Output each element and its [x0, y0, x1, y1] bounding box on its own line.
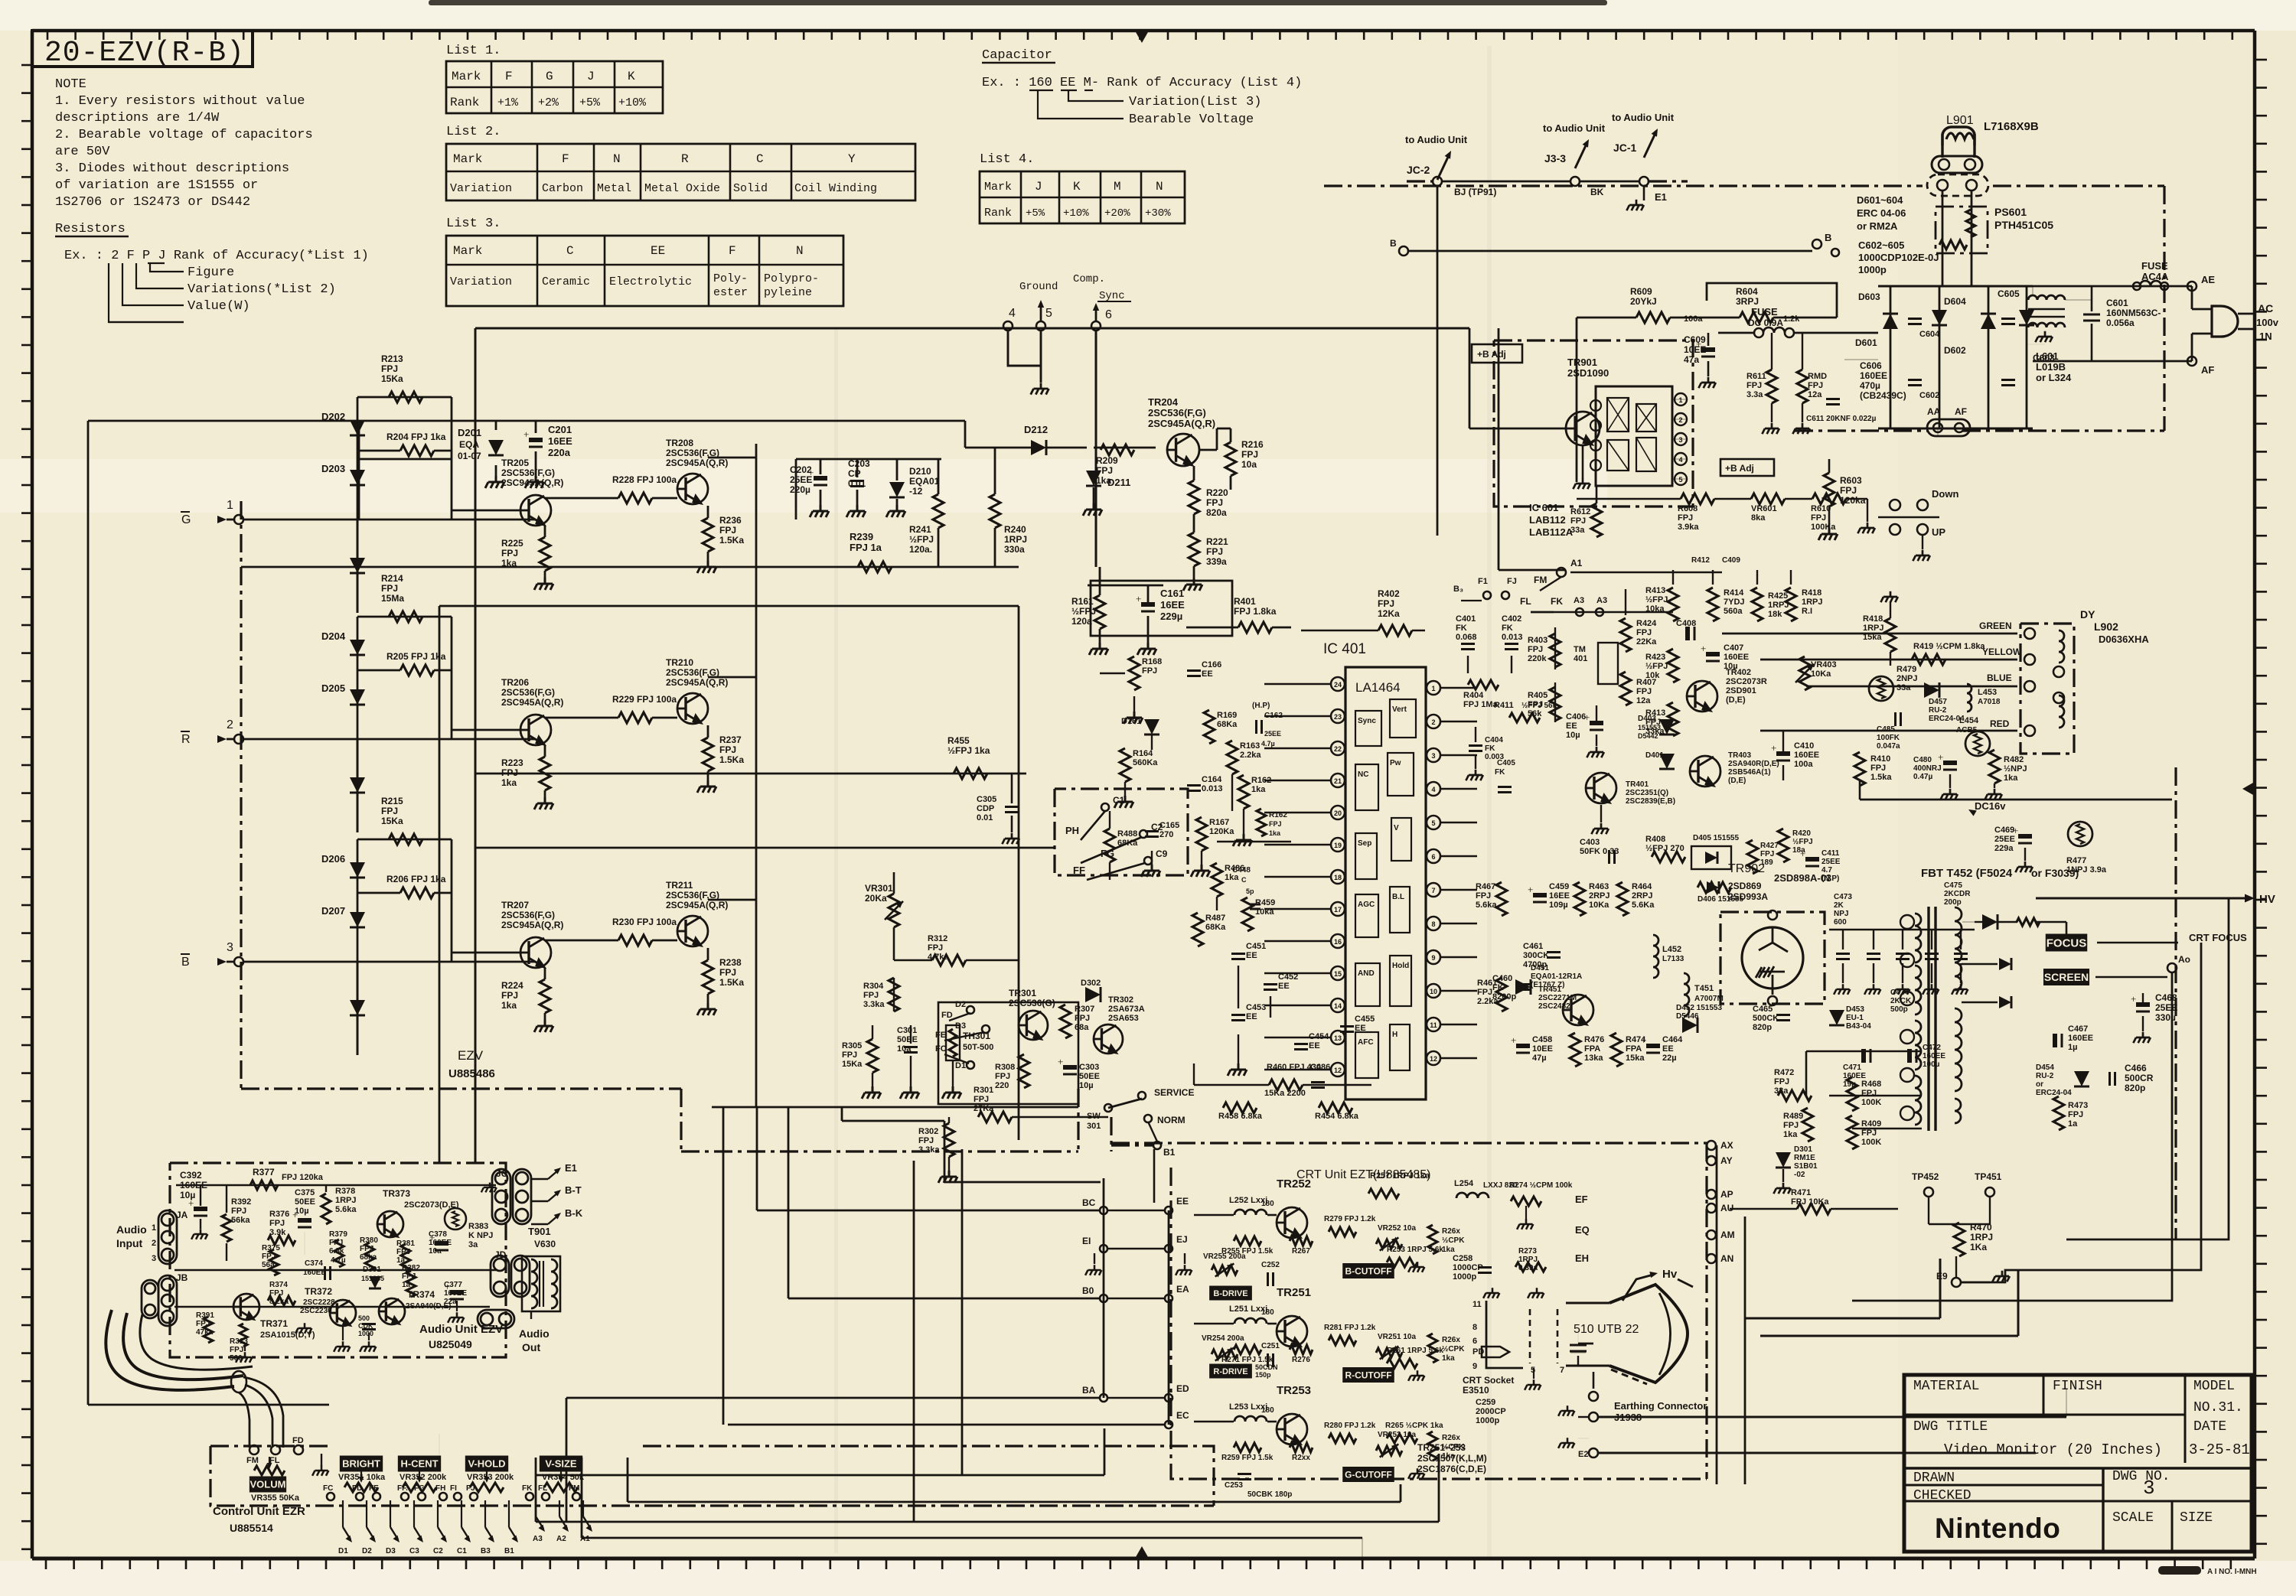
svg-text:R223: R223 — [501, 757, 523, 768]
svg-text:Metal: Metal — [597, 182, 631, 195]
svg-text:C: C — [1241, 876, 1247, 884]
ruler ticks bottom — [45, 1559, 47, 1569]
wires to AE AF — [2033, 285, 2192, 288]
resistor R221 — [1189, 533, 1199, 566]
svg-text:C377: C377 — [444, 1281, 462, 1289]
svg-text:0.013: 0.013 — [1502, 633, 1523, 642]
FOCUS SCREEN boxes — [2046, 934, 2088, 952]
svg-text:ester: ester — [713, 286, 748, 299]
svg-text:CDP: CDP — [977, 804, 994, 813]
EZV unit boundary dash-dot — [240, 501, 242, 1089]
svg-text:List 1.: List 1. — [446, 44, 501, 58]
svg-text:V630: V630 — [534, 1239, 556, 1249]
svg-text:15: 15 — [1334, 970, 1342, 978]
VOLUM pot — [249, 1477, 286, 1493]
vertical from JC-2 — [1437, 186, 1439, 329]
svg-text:2.2ka: 2.2ka — [1477, 997, 1499, 1006]
svg-text:FH: FH — [435, 1484, 445, 1493]
svg-text:D602: D602 — [1944, 345, 1966, 356]
svg-text:B: B — [1390, 238, 1397, 249]
svg-text:1: 1 — [1431, 685, 1435, 692]
svg-text:R419 ½CPM 1.8ka: R419 ½CPM 1.8ka — [1913, 642, 1985, 651]
crt aquadag cap — [1578, 1343, 1593, 1345]
svg-text:160NM563C-: 160NM563C- — [2106, 308, 2161, 318]
svg-text:TR374: TR374 — [407, 1289, 435, 1300]
svg-text:FUSE: FUSE — [2141, 260, 2168, 272]
svg-text:C392: C392 — [180, 1170, 202, 1181]
svg-text:C2: C2 — [433, 1547, 443, 1555]
svg-text:13ka: 13ka — [1584, 1054, 1603, 1063]
svg-text:Value(W): Value(W) — [188, 299, 250, 314]
svg-text:2SD993A: 2SD993A — [1728, 891, 1768, 902]
svg-text:Pw: Pw — [1390, 759, 1401, 767]
svg-text:1: 1 — [1678, 396, 1682, 404]
diode D206 — [357, 839, 359, 962]
svg-text:5: 5 — [1678, 476, 1682, 484]
part R488 — [1104, 829, 1115, 862]
svg-text:G: G — [181, 513, 191, 526]
svg-text:2SC1507(K,L,M): 2SC1507(K,L,M) — [1417, 1453, 1487, 1464]
svg-text:FPJ: FPJ — [381, 363, 398, 374]
svg-text:D5446: D5446 — [1676, 1012, 1699, 1021]
svg-text:G: G — [546, 70, 553, 83]
svg-text:10EE: 10EE — [1532, 1044, 1553, 1054]
svg-text:10k: 10k — [1645, 671, 1660, 680]
svg-text:R612: R612 — [1570, 507, 1590, 516]
svg-text:N: N — [613, 152, 621, 166]
part R487 — [1192, 913, 1203, 946]
svg-text:½FPJ: ½FPJ — [1792, 838, 1813, 846]
resistor R376 — [268, 1236, 295, 1245]
svg-text:FPJ: FPJ — [360, 1245, 373, 1253]
R404 — [1468, 680, 1499, 689]
svg-text:D603: D603 — [1858, 292, 1880, 302]
top edge scan smudge — [429, 0, 1607, 5]
svg-text:PD: PD — [1473, 1347, 1484, 1357]
svg-text:IC 601: IC 601 — [1529, 502, 1558, 513]
svg-text:15ka: 15ka — [1626, 1054, 1645, 1063]
svg-text:C201: C201 — [548, 424, 572, 435]
svg-text:C202: C202 — [790, 464, 812, 475]
svg-text:FUSE: FUSE — [1751, 306, 1778, 318]
svg-text:C374: C374 — [305, 1259, 323, 1268]
svg-text:+5%: +5% — [579, 96, 601, 109]
R609 R604 resistors — [1636, 312, 1670, 323]
capacitor C454 — [1294, 1043, 1308, 1045]
svg-text:M: M — [1114, 180, 1121, 194]
svg-text:D403: D403 — [1638, 715, 1656, 723]
pot arrows — [360, 1471, 362, 1481]
svg-text:330a: 330a — [1004, 544, 1025, 555]
diode D212 — [1031, 440, 1046, 455]
svg-text:JB: JB — [176, 1272, 188, 1283]
svg-text:YELLOW: YELLOW — [1982, 647, 2022, 657]
ruler ticks right — [2255, 59, 2267, 61]
svg-text:R253 1RPJ 5.6k: R253 1RPJ 5.6k — [1387, 1246, 1443, 1254]
svg-text:47ka: 47ka — [196, 1328, 214, 1337]
svg-text:R279 FPJ 1.2k: R279 FPJ 1.2k — [1324, 1215, 1376, 1223]
svg-text:R459: R459 — [1255, 898, 1275, 907]
svg-text:to Audio Unit: to Audio Unit — [1405, 134, 1468, 145]
svg-text:FPJ: FPJ — [1774, 1077, 1789, 1086]
resistor R381 — [401, 1244, 410, 1272]
resistor R2xx — [1290, 1443, 1313, 1452]
svg-text:FI: FI — [450, 1484, 457, 1493]
svg-text:FPJ: FPJ — [231, 1207, 246, 1216]
svg-text:22: 22 — [1334, 745, 1342, 753]
verticals to bottom rails — [913, 1161, 915, 1522]
resistor legend bracket lines — [150, 263, 184, 272]
diode D202 — [357, 397, 359, 520]
resistor R280 — [1329, 1434, 1356, 1443]
svg-text:+10%: +10% — [1063, 207, 1089, 220]
svg-text:56a: 56a — [262, 1261, 275, 1269]
svg-text:LA1464: LA1464 — [1355, 680, 1401, 695]
svg-text:R455: R455 — [947, 735, 970, 746]
svg-text:AY: AY — [1720, 1155, 1733, 1166]
svg-text:14: 14 — [1334, 1002, 1342, 1010]
svg-text:H: H — [1392, 1031, 1397, 1039]
svg-text:DC 0.9A: DC 0.9A — [1748, 318, 1783, 328]
svg-text:VR352 200k: VR352 200k — [400, 1473, 447, 1482]
R408 D405 R427 cluster — [1652, 852, 1685, 862]
svg-text:3: 3 — [1678, 436, 1682, 444]
svg-text:R301: R301 — [974, 1086, 993, 1095]
svg-text:pyleine: pyleine — [764, 286, 812, 299]
svg-text:FPJ: FPJ — [1096, 465, 1113, 476]
svg-text:AC: AC — [2258, 302, 2273, 314]
svg-text:R418: R418 — [1802, 588, 1821, 598]
svg-text:L454: L454 — [1959, 716, 1979, 725]
AC plug — [2212, 306, 2238, 337]
svg-text:TR211: TR211 — [666, 880, 693, 891]
svg-text:FPJ 120ka: FPJ 120ka — [282, 1173, 324, 1182]
svg-text:A1: A1 — [1570, 558, 1583, 568]
print code bottom right — [2158, 1566, 2201, 1575]
svg-text:Earthing Connector: Earthing Connector — [1614, 1400, 1707, 1412]
svg-text:3.9ka: 3.9ka — [1678, 523, 1699, 532]
svg-text:Variation: Variation — [450, 275, 512, 288]
svg-text:50T-500: 50T-500 — [963, 1043, 993, 1052]
wires from audio to control — [439, 1434, 440, 1458]
crt node labels — [1165, 1207, 1172, 1214]
svg-text:C606: C606 — [1860, 360, 1882, 371]
svg-text:9: 9 — [1473, 1362, 1477, 1371]
capacitor C451 — [1231, 953, 1245, 955]
svg-text:R423: R423 — [1645, 653, 1665, 662]
svg-text:ED: ED — [1176, 1383, 1189, 1394]
svg-text:C474: C474 — [1890, 989, 1909, 997]
svg-text:N: N — [796, 244, 804, 258]
resistor R240 — [990, 494, 1000, 528]
svg-text:C409: C409 — [1722, 556, 1740, 565]
svg-text:R402: R402 — [1378, 588, 1400, 599]
svg-text:C258: C258 — [1453, 1254, 1473, 1263]
svg-text:VR254 200a: VR254 200a — [1202, 1334, 1244, 1343]
capacitor C374 — [324, 1266, 326, 1280]
bottom long wires — [536, 1521, 1439, 1523]
svg-text:4: 4 — [1009, 307, 1016, 320]
degauss coil L901 — [1946, 133, 1974, 139]
E1 BT BK arrows — [531, 1178, 548, 1180]
svg-text:R162: R162 — [1269, 811, 1287, 819]
svg-text:C475: C475 — [1944, 881, 1962, 890]
svg-text:D457: D457 — [1929, 698, 1947, 706]
svg-text:EE: EE — [1202, 669, 1213, 679]
svg-text:DWG TITLE: DWG TITLE — [1913, 1419, 1988, 1435]
svg-text:R240: R240 — [1004, 524, 1026, 535]
svg-text:C251: C251 — [1261, 1342, 1280, 1350]
svg-text:2.2ka: 2.2ka — [1240, 751, 1261, 760]
capacitor C253 — [1238, 1473, 1251, 1475]
svg-text:C486: C486 — [1310, 1063, 1330, 1072]
svg-text:R609: R609 — [1630, 286, 1652, 297]
svg-text:FE: FE — [935, 1031, 946, 1040]
svg-text:20: 20 — [1334, 809, 1342, 817]
PS601 posistor — [1936, 207, 1988, 253]
part C164 — [1187, 784, 1201, 787]
svg-text:TR371: TR371 — [260, 1318, 288, 1329]
svg-text:B: B — [1825, 232, 1831, 243]
svg-text:R487: R487 — [1205, 914, 1225, 923]
svg-text:510 UTB 22: 510 UTB 22 — [1574, 1323, 1639, 1336]
svg-text:160EE: 160EE — [429, 1239, 452, 1247]
svg-text:R.I: R.I — [1802, 607, 1812, 616]
svg-text:1ka: 1ka — [501, 1000, 517, 1011]
svg-text:R608: R608 — [1678, 504, 1698, 513]
svg-text:C609: C609 — [1684, 334, 1706, 345]
svg-text:+B Adj: +B Adj — [1477, 349, 1506, 360]
C609 cap — [1701, 347, 1715, 352]
svg-text:0.068: 0.068 — [1456, 633, 1477, 642]
svg-text:VR601: VR601 — [1751, 504, 1777, 513]
SW301 service-norm switch — [1104, 1104, 1112, 1112]
svg-text:4: 4 — [1431, 786, 1435, 793]
R603 fpj — [1824, 473, 1835, 506]
svg-text:FPJ: FPJ — [719, 967, 736, 978]
svg-text:33a: 33a — [1896, 683, 1911, 692]
svg-text:Y: Y — [848, 152, 856, 166]
svg-text:10EE: 10EE — [1684, 344, 1706, 355]
svg-text:C602: C602 — [1919, 391, 1939, 400]
svg-text:FPJ: FPJ — [501, 548, 518, 559]
svg-text:2SC2351(Q): 2SC2351(Q) — [1626, 789, 1668, 797]
svg-text:12: 12 — [1334, 1067, 1342, 1074]
svg-text:FPJ: FPJ — [1811, 513, 1826, 523]
svg-text:E9: E9 — [1936, 1271, 1948, 1282]
resistor R214 — [357, 616, 452, 618]
svg-text:2: 2 — [1678, 416, 1682, 424]
svg-text:B-DRIVE: B-DRIVE — [1213, 1289, 1247, 1298]
svg-text:1Ka: 1Ka — [1970, 1242, 1987, 1252]
svg-text:R391: R391 — [196, 1311, 214, 1320]
svg-text:(E1767 Z): (E1767 Z) — [1531, 981, 1564, 989]
svg-text:R168: R168 — [1142, 657, 1162, 666]
svg-text:15Ka: 15Ka — [842, 1060, 863, 1069]
svg-text:50CBK 180p: 50CBK 180p — [1247, 1490, 1292, 1499]
svg-text:UP: UP — [1932, 526, 1945, 538]
svg-text:300CK: 300CK — [1523, 951, 1549, 960]
svg-text:TR372: TR372 — [305, 1286, 332, 1297]
FM FL FD pins — [249, 1445, 259, 1454]
svg-text:Ex. : 160 EE M- Rank of Accura: Ex. : 160 EE M- Rank of Accuracy (List 4… — [982, 76, 1302, 90]
svg-text:2RPJ: 2RPJ — [1589, 891, 1610, 901]
drawing title block — [1904, 1375, 2252, 1552]
svg-text:JC-1: JC-1 — [1613, 142, 1637, 154]
svg-text:FPJ: FPJ — [1528, 700, 1543, 709]
svg-text:R476: R476 — [1584, 1035, 1604, 1044]
svg-text:1ka: 1ka — [1096, 475, 1111, 486]
svg-text:TR204: TR204 — [1148, 396, 1179, 408]
svg-text:47a: 47a — [1684, 354, 1699, 365]
extra right bottom wires — [1760, 1335, 2018, 1337]
svg-text:C259: C259 — [1476, 1398, 1495, 1407]
B node tap — [1812, 239, 1821, 249]
svg-text:SIZE: SIZE — [2180, 1510, 2213, 1526]
svg-text:2KCDR: 2KCDR — [1944, 890, 1971, 898]
svg-text:Sync: Sync — [1358, 717, 1376, 725]
svg-text:C164: C164 — [1202, 775, 1222, 784]
TR901 shield box — [1494, 340, 1693, 506]
crt socket — [1486, 1301, 1523, 1368]
Ao node — [2167, 963, 2177, 972]
svg-text:12: 12 — [1430, 1055, 1437, 1063]
svg-text:FPJ: FPJ — [269, 1289, 283, 1298]
svg-text:Ao: Ao — [2178, 954, 2190, 965]
svg-text:List 2.: List 2. — [446, 125, 501, 139]
svg-text:3: 3 — [227, 941, 233, 954]
svg-text:D452 151553: D452 151553 — [1676, 1004, 1722, 1012]
svg-text:DWG NO.: DWG NO. — [2112, 1469, 2170, 1484]
svg-text:6: 6 — [1431, 853, 1435, 861]
svg-text:10µ: 10µ — [1566, 731, 1580, 740]
svg-text:1.5Ka: 1.5Ka — [719, 535, 744, 546]
svg-text:3a: 3a — [468, 1240, 478, 1249]
row resistor right — [1428, 1334, 1437, 1363]
svg-text:2SC536(F,G): 2SC536(F,G) — [501, 910, 555, 920]
svg-text:C448: C448 — [1232, 866, 1251, 875]
VR VR253 — [1376, 1446, 1402, 1455]
AE AF nodes — [2187, 282, 2197, 291]
svg-text:C466: C466 — [2125, 1063, 2147, 1073]
svg-text:1ka: 1ka — [1442, 1246, 1455, 1254]
row connectors — [1108, 1210, 1164, 1212]
svg-text:AF: AF — [2201, 364, 2214, 376]
svg-text:150p: 150p — [1255, 1371, 1271, 1379]
svg-text:1ka: 1ka — [1442, 1354, 1455, 1363]
AA AF connector bottom — [1927, 419, 1970, 436]
part R164 — [1120, 748, 1130, 782]
svg-text:100Ka: 100Ka — [1811, 523, 1836, 532]
svg-text:A3: A3 — [1574, 596, 1584, 605]
svg-text:19: 19 — [1334, 842, 1342, 849]
svg-text:K: K — [1073, 180, 1081, 194]
svg-text:400NRJ: 400NRJ — [1913, 764, 1942, 773]
svg-text:AFC: AFC — [1358, 1038, 1374, 1047]
transistor TR211 — [677, 916, 708, 946]
svg-text:160EE: 160EE — [1923, 1052, 1945, 1060]
svg-text:R169: R169 — [1217, 711, 1237, 720]
audio cable tube — [106, 1310, 234, 1390]
resistor R220 — [1189, 480, 1199, 514]
R612 R617 — [1591, 503, 1602, 537]
transistor TR374 — [379, 1298, 405, 1324]
svg-text:151335: 151335 — [361, 1275, 384, 1282]
resistor R204 — [400, 445, 434, 456]
svg-text:FPJ: FPJ — [402, 1272, 416, 1281]
svg-text:5: 5 — [1431, 819, 1435, 827]
left node labels — [1100, 1207, 1107, 1214]
svg-text:2SD898A-03: 2SD898A-03 — [1774, 872, 1831, 884]
main vertical x621 — [475, 328, 477, 1163]
svg-text:Solid: Solid — [733, 182, 768, 195]
svg-text:EQA01-12R1A: EQA01-12R1A — [1531, 972, 1582, 981]
resistor R392 — [222, 1214, 231, 1242]
svg-text:FINISH: FINISH — [2053, 1379, 2102, 1394]
svg-text:C454: C454 — [1309, 1032, 1329, 1041]
svg-text:Rank: Rank — [450, 96, 479, 109]
svg-text:23: 23 — [1334, 713, 1342, 721]
svg-text:VR301: VR301 — [865, 883, 893, 894]
right edge long wires — [1852, 972, 2172, 1301]
svg-text:68a: 68a — [1075, 1023, 1089, 1032]
svg-text:TR373: TR373 — [383, 1188, 410, 1199]
svg-text:EF: EF — [1575, 1194, 1588, 1205]
svg-text:+: + — [1136, 593, 1141, 604]
center marker top — [1136, 32, 1148, 43]
svg-text:A I NO. I-MNH: A I NO. I-MNH — [2207, 1568, 2257, 1576]
svg-text:B0: B0 — [1082, 1285, 1094, 1296]
resistor R375 — [269, 1249, 279, 1275]
svg-text:A3: A3 — [1596, 596, 1607, 605]
R253 R261 R265 right resistors — [1387, 1258, 1417, 1267]
svg-text:F: F — [729, 244, 736, 258]
transformer L601 — [2028, 295, 2065, 300]
svg-text:18k: 18k — [1768, 610, 1782, 619]
resistor R271 — [1234, 1345, 1261, 1354]
svg-text:R206 FPJ 1ka: R206 FPJ 1ka — [386, 874, 446, 884]
svg-text:D601~604: D601~604 — [1857, 194, 1903, 206]
svg-text:FPJ: FPJ — [1808, 381, 1823, 390]
svg-text:DATE: DATE — [2193, 1419, 2226, 1435]
svg-text:or F3039): or F3039) — [2031, 867, 2079, 879]
svg-text:11: 11 — [1430, 1021, 1437, 1029]
svg-text:½CPK: ½CPK — [1442, 1345, 1465, 1353]
left long vertical x115 — [87, 421, 90, 1405]
svg-text:15Ka: 15Ka — [381, 373, 403, 384]
svg-text:R167: R167 — [1209, 818, 1229, 827]
svg-text:8.2ka: 8.2ka — [269, 1298, 289, 1306]
svg-text:Variations(*List 2): Variations(*List 2) — [188, 282, 336, 297]
svg-text:C403: C403 — [1580, 838, 1600, 847]
svg-text:C1: C1 — [1113, 795, 1125, 806]
resistor R241 — [933, 494, 944, 528]
svg-text:(H.P): (H.P) — [1252, 702, 1270, 710]
R413 R423 — [1668, 588, 1678, 621]
svg-text:L7133: L7133 — [1662, 955, 1684, 963]
svg-text:NORM: NORM — [1157, 1115, 1186, 1125]
svg-text:56k: 56k — [1528, 709, 1542, 718]
svg-text:TR208: TR208 — [666, 438, 693, 448]
svg-text:R471: R471 — [1791, 1188, 1811, 1197]
C473 C474 C475 caps — [1836, 953, 1850, 955]
resistor R276 — [1290, 1345, 1313, 1354]
svg-text:HV: HV — [2259, 893, 2275, 906]
svg-text:JC: JC — [496, 1168, 508, 1179]
svg-text:FPJ: FPJ — [719, 744, 736, 755]
svg-text:Resistors: Resistors — [55, 222, 126, 236]
svg-text:220a: 220a — [548, 447, 571, 458]
